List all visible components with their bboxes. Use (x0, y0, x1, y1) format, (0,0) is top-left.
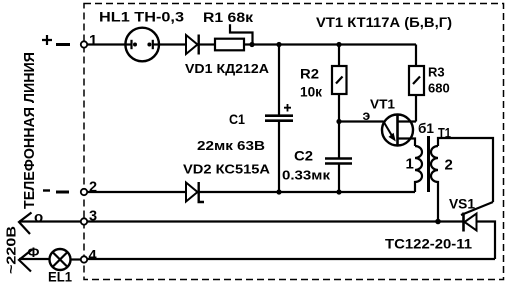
wire row3 right + right connector down (477, 222, 495, 260)
wire row2: VD2 to winding1 (199, 191, 415, 193)
device dashed border box (84, 4, 504, 280)
svg-text:VS1: VS1 (449, 196, 475, 212)
wire stub row2 (56, 191, 69, 194)
svg-text:R1 68к: R1 68к (203, 10, 253, 25)
svg-text:1: 1 (89, 32, 97, 49)
svg-text:VD1 КД212А: VD1 КД212А (185, 61, 270, 76)
node - label row2 (43, 189, 50, 191)
wire row1: VD1 to R1 (199, 43, 215, 45)
wire row1: terminal to HL1 (87, 43, 132, 45)
neon lamp HL1 (125, 28, 159, 62)
winding 2 top lead (438, 138, 493, 202)
terminal 1 (81, 41, 87, 47)
arrow mains phase (19, 250, 32, 272)
lamp EL1 (50, 249, 71, 270)
node dot R2 top (336, 42, 341, 47)
terminal 4 (81, 256, 87, 262)
wire row4: EL1 to terminal (71, 258, 82, 260)
svg-text:Т1: Т1 (438, 126, 451, 141)
wire row2: terminal to VD2 (87, 191, 185, 193)
terminal 3 (81, 218, 87, 224)
node dot winding2 bottom (435, 219, 441, 225)
svg-text:10к: 10к (300, 85, 322, 100)
svg-text:VT1: VT1 (370, 97, 395, 112)
svg-text:0.33мк: 0.33мк (282, 168, 331, 183)
arrow mains neutral (19, 213, 32, 235)
terminal 2 (81, 189, 87, 195)
resistor R1 (trimmer) (215, 24, 253, 50)
svg-text:R2: R2 (300, 67, 319, 82)
wire row3 left (19, 220, 81, 222)
svg-text:680: 680 (428, 81, 450, 96)
svg-text:б1: б1 (418, 121, 434, 136)
transistor VT1 (382, 114, 416, 146)
wire row1: HL1 to VD1 (159, 43, 185, 45)
node dot C1 top (276, 42, 281, 47)
svg-text:R3: R3 (428, 65, 445, 80)
capacitor C1 (265, 45, 293, 193)
svg-text:~220В: ~220В (4, 226, 19, 274)
svg-text:2: 2 (89, 180, 97, 196)
svg-text:HL1 ТН-0,3: HL1 ТН-0,3 (99, 10, 185, 25)
wire emitter (339, 120, 384, 122)
svg-text:о: о (34, 209, 43, 226)
node dot R1 wiper junction (249, 42, 254, 47)
wire stub row1 (56, 43, 70, 46)
node dot C2 bottom (336, 189, 341, 194)
svg-text:ТС122-20-11: ТС122-20-11 (385, 236, 472, 252)
thyristor VS1 (461, 202, 493, 232)
svg-text:22мк 63В: 22мк 63В (197, 138, 265, 153)
svg-text:4: 4 (89, 248, 97, 264)
wire row4: terminal to right connector (87, 258, 495, 260)
capacitor C2 (325, 122, 352, 193)
winding 1 (415, 146, 422, 192)
svg-text:2: 2 (445, 157, 453, 174)
svg-text:VT1 КТ117А (Б,В,Г): VT1 КТ117А (Б,В,Г) (316, 14, 452, 30)
svg-text:1: 1 (406, 156, 414, 173)
wire row4: arrow to EL1 (19, 258, 50, 260)
transformer T1 (415, 136, 493, 222)
node dot R2/C2/emitter junction (336, 119, 341, 124)
winding 2 (431, 146, 438, 222)
wire row1: R1 to R3 corner (244, 43, 416, 45)
node + label (42, 35, 52, 45)
svg-text:C2: C2 (294, 149, 313, 164)
node dot C1 bottom (276, 189, 281, 194)
wire row3: terminal to VS1 (87, 220, 464, 222)
diode VD1 (186, 35, 199, 55)
svg-text:C1: C1 (229, 112, 245, 127)
resistor R3 (409, 45, 424, 122)
resistor R2 (332, 45, 347, 122)
svg-text:ТЕЛЕФОННАЯ ЛИНИЯ: ТЕЛЕФОННАЯ ЛИНИЯ (22, 52, 38, 209)
svg-text:EL1: EL1 (48, 270, 72, 285)
zener diode VD2 (186, 182, 204, 202)
svg-text:VD2 КС515А: VD2 КС515А (183, 162, 271, 177)
core (427, 136, 430, 192)
svg-text:Ф: Ф (28, 244, 40, 260)
